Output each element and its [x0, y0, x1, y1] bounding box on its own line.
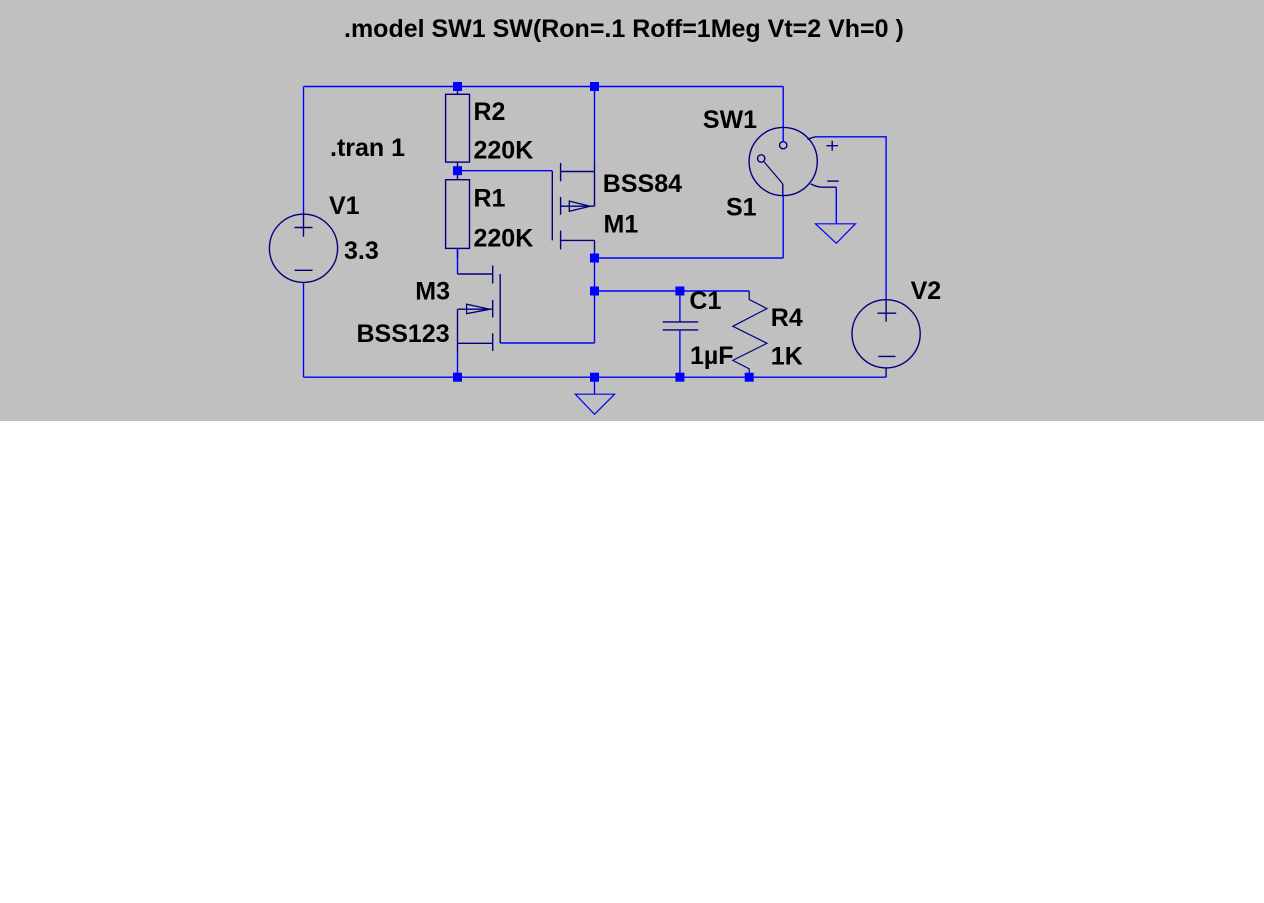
wire R1 bottom to M3 drain: [457, 248, 459, 274]
svg-text:R2: R2: [474, 98, 506, 126]
resistor R4: [733, 291, 767, 377]
wire switch plus control to V2: [817, 137, 886, 300]
svg-text:BSS123: BSS123: [357, 320, 450, 348]
ground flag at switch control: [816, 224, 856, 244]
wire M1 drain down through nodes: [594, 250, 596, 343]
junction bottom rail at ground: [590, 373, 599, 382]
junction bottom rail at R4: [745, 373, 754, 382]
wire M1 source from top rail: [594, 87, 596, 164]
junction R2/R1 gate node: [453, 166, 462, 175]
ground flag at bottom rail: [575, 377, 614, 414]
svg-text:R4: R4: [771, 304, 803, 332]
svg-text:S1: S1: [726, 194, 757, 222]
voltage source V2: [852, 300, 920, 378]
svg-text:V2: V2: [911, 277, 942, 305]
wire switch minus control to ground: [835, 187, 837, 224]
svg-text:R1: R1: [474, 185, 506, 213]
wire top rail: [304, 86, 784, 88]
wire V1 bottom to ground rail: [303, 282, 305, 377]
svg-text:220K: 220K: [474, 224, 534, 252]
switch S1 (SW1): [749, 87, 839, 196]
transistor M3 (NMOS BSS123): [458, 266, 501, 353]
svg-text:3.3: 3.3: [344, 237, 379, 265]
wire gate of M1 from R1/R2 node: [458, 170, 553, 172]
resistor R1: [446, 171, 470, 258]
svg-text:M1: M1: [604, 211, 639, 239]
svg-text:M3: M3: [415, 278, 450, 306]
capacitor C1: [663, 291, 698, 377]
junction bottom rail at M3: [453, 373, 462, 382]
svg-text:V1: V1: [329, 192, 360, 220]
svg-text:C1: C1: [689, 287, 721, 315]
wire left rail (V1 top): [303, 87, 305, 215]
svg-text:220K: 220K: [474, 137, 534, 165]
wire cap node horizontal: [595, 290, 750, 292]
wire bottom ground rail: [304, 376, 887, 378]
svg-text:1K: 1K: [771, 343, 803, 371]
junction C1 top: [675, 287, 684, 296]
wire switch bottom to node: [782, 196, 784, 258]
wire M3 gate run: [500, 342, 594, 344]
junction top rail at R2: [453, 82, 462, 91]
wire switch node horizontal: [595, 257, 784, 259]
resistor R2: [446, 87, 470, 171]
junction top rail at M1 source: [590, 82, 599, 91]
junction cap node: [590, 287, 599, 296]
svg-text:.model SW1 SW(Ron=.1 Roff=1Meg: .model SW1 SW(Ron=.1 Roff=1Meg Vt=2 Vh=0…: [344, 15, 904, 43]
junction M1 drain / switch node: [590, 254, 599, 263]
junction bottom rail at C1: [675, 373, 684, 382]
wire M3 source to ground rail: [457, 352, 459, 377]
svg-text:.tran 1: .tran 1: [330, 134, 405, 162]
schematic gray background: [0, 0, 1264, 421]
voltage source V1: [269, 214, 337, 282]
svg-text:1µF: 1µF: [690, 342, 734, 370]
svg-text:BSS84: BSS84: [603, 170, 682, 198]
svg-text:SW1: SW1: [703, 106, 757, 134]
transistor M1 (PMOS BSS84): [552, 163, 594, 250]
